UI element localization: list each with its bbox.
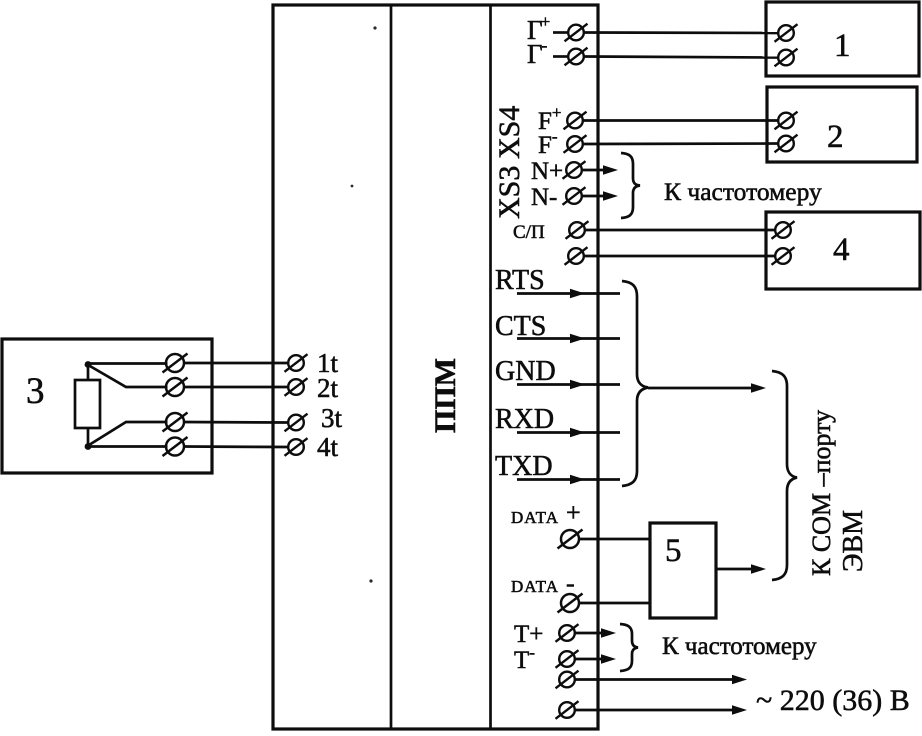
wire arrow T- — [575, 658, 602, 661]
wire c1 to terminal 1t — [183, 362, 288, 365]
wire arrow CTS — [517, 337, 620, 340]
ППМ internal divider line 2 — [489, 5, 492, 729]
svg-text:ЭВМ: ЭВМ — [838, 510, 869, 572]
wire arrow mains a — [575, 678, 733, 681]
terminal С/П — [566, 221, 589, 239]
wire row8 to box 4 — [584, 255, 775, 258]
terminal Г+ — [565, 24, 588, 42]
wire stub Г+ — [553, 31, 569, 34]
wire arrow from COM brace to ЭВМ brace — [648, 387, 752, 390]
wire F- to box 2 — [583, 142, 778, 145]
svg-text:4t: 4t — [317, 432, 339, 462]
terminal box1 b — [775, 49, 798, 67]
terminal box4 a — [772, 221, 795, 239]
terminal c2 in box 3 — [163, 378, 188, 397]
wire arrow T+ — [575, 632, 602, 635]
svg-text:RTS: RTS — [495, 265, 545, 296]
wire stub Г- — [553, 55, 569, 58]
svg-text:Г-: Г- — [527, 36, 548, 69]
wire Г+ to box 1 — [584, 31, 778, 34]
terminal DATA- — [558, 594, 583, 613]
wire c4 to terminal 4t — [183, 445, 288, 448]
box 2 — [767, 87, 917, 162]
brace T group — [620, 624, 638, 671]
svg-text:DATA: DATA — [511, 508, 559, 527]
wire node A to terminal c1 — [88, 362, 168, 365]
terminal 3t — [285, 414, 308, 432]
wire Г- to box 1 — [584, 57, 778, 58]
svg-text:С/П: С/П — [513, 222, 545, 243]
svg-text:N-: N- — [531, 184, 557, 211]
svg-text:ППМ: ППМ — [429, 358, 462, 433]
terminal c3 in box 3 — [163, 413, 188, 432]
terminal box1 a — [775, 24, 798, 42]
terminal box2 a — [775, 112, 798, 130]
wire DATA+ to box 5 — [578, 538, 650, 541]
box 1 — [766, 2, 919, 76]
wire resistor bottom to node B — [87, 427, 90, 448]
svg-text:К СОМ –порту: К СОМ –порту — [807, 410, 836, 576]
terminal F- — [564, 135, 587, 153]
wire arrow GND — [517, 383, 620, 386]
terminal 1t — [285, 354, 308, 372]
wire arrow mains b — [575, 709, 733, 712]
terminal 2t — [285, 378, 308, 396]
svg-text:5: 5 — [665, 533, 682, 569]
node A (junction dot) — [85, 361, 92, 368]
wire arrow RTS — [517, 292, 620, 295]
wire c3 to terminal 3t — [183, 421, 288, 424]
terminal 4t — [285, 438, 308, 456]
terminal T- — [556, 650, 579, 668]
svg-text:Т-: Т- — [514, 643, 535, 674]
wire arrow N+ — [582, 169, 604, 172]
svg-text:GND: GND — [495, 356, 556, 387]
terminal DATA+ — [558, 530, 583, 549]
block ППМ main module box — [273, 5, 598, 729]
wire arrow box 5 output — [716, 568, 752, 571]
brace COM group left — [622, 281, 648, 486]
svg-text:К частотомеру: К частотомеру — [664, 177, 822, 206]
box 3 (sensor unit) — [2, 339, 212, 473]
svg-text:F+: F+ — [538, 103, 562, 135]
terminal F+ — [564, 112, 587, 130]
terminal T+ — [556, 624, 579, 642]
node B (junction dot) — [85, 443, 92, 450]
svg-text:4: 4 — [833, 232, 850, 268]
svg-text:2t: 2t — [317, 373, 339, 403]
wire F+ to box 2 — [583, 119, 778, 122]
ППМ internal divider line 1 — [390, 5, 393, 729]
resistor element in box 3 — [75, 380, 100, 428]
wire arrow N- — [582, 195, 604, 198]
terminal N+ — [563, 161, 586, 179]
terminal N- — [563, 187, 586, 205]
svg-text:RXD: RXD — [495, 404, 554, 435]
wire DATA- to box 5 — [578, 602, 650, 605]
svg-text:+: + — [566, 498, 581, 527]
svg-text:F-: F- — [538, 127, 558, 159]
box 5 — [650, 523, 716, 618]
terminal box4 b — [772, 247, 795, 265]
terminal c1 in box 3 — [163, 354, 188, 373]
terminal Г- — [565, 48, 588, 66]
svg-text:3: 3 — [26, 371, 45, 412]
terminal c4 in box 3 — [163, 437, 188, 456]
terminal mains b — [556, 701, 579, 719]
svg-text:DATA: DATA — [511, 577, 559, 596]
wire c2 to terminal 2t — [183, 386, 288, 389]
terminal row8 — [565, 247, 588, 265]
wire resistor top to node A — [87, 363, 90, 381]
terminal box2 b — [775, 135, 798, 153]
wire arrow RXD — [517, 431, 620, 434]
wire node B to terminal c4 — [88, 445, 168, 448]
brace N group — [621, 153, 640, 218]
wire node A diagonal to terminal c2 — [89, 366, 168, 388]
svg-text:3t: 3t — [321, 403, 343, 433]
svg-text:~ 220 (36) В: ~ 220 (36) В — [756, 684, 910, 717]
wire node B diagonal to terminal c3 — [89, 422, 168, 445]
brace ЭВМ group right — [772, 371, 797, 580]
svg-text:XS3: XS3 — [493, 166, 526, 219]
terminal mains a — [556, 671, 579, 689]
svg-text:К частотомеру: К частотомеру — [662, 633, 817, 660]
wire arrow TXD — [517, 478, 620, 481]
svg-text:2: 2 — [827, 119, 844, 155]
svg-text:TXD: TXD — [495, 451, 553, 482]
box 4 — [766, 212, 920, 289]
svg-text:XS4: XS4 — [493, 106, 526, 159]
svg-text:N+: N+ — [531, 158, 563, 185]
wire С/П to box 4 — [585, 229, 775, 232]
svg-text:1: 1 — [834, 28, 851, 64]
